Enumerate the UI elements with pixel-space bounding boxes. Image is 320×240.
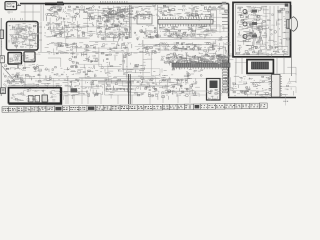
power board components <box>11 89 61 103</box>
CRT board wires <box>236 58 284 74</box>
terminal table cell 26 <box>200 104 208 109</box>
terminal table cell 15 <box>111 105 120 110</box>
terminal table cell 27 <box>208 104 216 109</box>
antenna connector J1 <box>5 2 17 10</box>
wire mesh left-low zone <box>36 53 40 56</box>
chroma transistor row <box>165 46 167 49</box>
wire h-rail 52 <box>38 52 160 54</box>
vertical yoke coil comb <box>98 80 134 82</box>
terminal table cell 6 <box>38 106 46 111</box>
terminal table cell 33 <box>260 103 268 108</box>
terminal table cell 29 <box>225 104 235 109</box>
terminal table cell 31 <box>242 103 250 108</box>
video detector components <box>51 21 54 24</box>
wire under J1 <box>7 11 13 14</box>
horizontal drive components <box>171 89 174 92</box>
jungle IC labels <box>170 60 174 61</box>
wire v143 <box>142 40 144 80</box>
audio right components <box>279 28 281 30</box>
wire mesh deflection zone <box>207 85 211 92</box>
connector CN201 pins <box>222 14 228 16</box>
audio board outer box <box>233 2 290 56</box>
AGC components <box>123 8 126 11</box>
audio board inner line <box>235 5 288 55</box>
terminal table cell 28 <box>215 104 225 109</box>
terminal table cell 25 <box>194 104 201 109</box>
noise canceller components <box>64 69 66 71</box>
terminal table cell 1 <box>2 107 9 112</box>
CRT socket board box <box>247 60 273 74</box>
IC601 vertical bar <box>272 75 281 98</box>
terminal table cell 12 <box>87 106 95 111</box>
luma delay components <box>160 55 163 58</box>
wire left edge bus <box>0 18 2 96</box>
wire v82 <box>81 78 83 104</box>
wire tuner feeds <box>21 4 44 21</box>
terminal table cell 16 <box>120 105 129 110</box>
AFC components <box>111 78 113 80</box>
speaker <box>289 17 298 32</box>
audio output wires <box>266 6 286 52</box>
wire x157 vertical <box>157 5 159 38</box>
AFT module components <box>25 54 35 61</box>
transformer T901 <box>42 95 47 102</box>
terminal table cell 2 <box>9 107 17 112</box>
terminal table cell 19 <box>144 105 153 110</box>
terminal table cell 8 <box>54 106 62 111</box>
AC power inlet <box>1 88 6 94</box>
filter capacitor C902 <box>35 96 40 102</box>
filter capacitor C901 <box>29 96 34 102</box>
wire mesh right-low zone <box>287 67 296 75</box>
lower-left components <box>9 83 12 85</box>
wire mesh video zone <box>143 40 170 44</box>
IC501 jungle IC <box>172 63 230 67</box>
terminal table cell 14 <box>103 105 111 110</box>
audio stage 3 components <box>259 37 261 39</box>
AGC label text <box>100 1 101 4</box>
CRT socket connector <box>252 62 269 69</box>
audio driver Q2 knot <box>243 22 247 26</box>
IF secondary components <box>175 30 178 33</box>
wire v68 <box>67 78 69 104</box>
sync countdown components <box>187 73 189 75</box>
sync separator box <box>137 15 152 25</box>
audio driver Q1 knot <box>243 10 247 14</box>
damper diode row <box>105 88 134 90</box>
IF module components <box>9 54 24 64</box>
wire mesh RF zone <box>65 21 90 38</box>
terminal table cell 13 <box>95 105 103 110</box>
wire H-out bus <box>129 74 131 104</box>
terminal table cell 5 <box>31 106 39 111</box>
IC201 IF amplifier <box>158 20 213 25</box>
wire h-rail 78 <box>14 78 160 80</box>
tuner label text <box>10 18 11 21</box>
sync components <box>140 30 143 32</box>
wire above power board <box>8 85 62 87</box>
terminal table cell 10 <box>70 106 79 111</box>
page number text <box>284 100 285 103</box>
wire v127 <box>126 44 128 80</box>
terminal table cell 32 <box>250 103 260 108</box>
standby circuit components <box>45 84 48 86</box>
terminal table cell 17 <box>129 105 138 110</box>
terminal table cell 9 <box>63 106 70 111</box>
audio stage 1 components <box>257 16 259 18</box>
tuner side label <box>0 41 3 43</box>
terminal table cell 20 <box>153 105 163 110</box>
terminal table cell 24 <box>185 104 194 109</box>
chroma section components <box>123 41 126 44</box>
burst gate components <box>136 64 139 66</box>
RF section components <box>140 16 143 18</box>
terminal table cell 7 <box>46 106 54 111</box>
wire vertical shield <box>130 5 132 38</box>
audio bottom components <box>259 50 262 52</box>
AV input jack <box>0 56 4 63</box>
terminal table cell 30 <box>235 103 242 108</box>
terminal table cell 3 <box>17 107 24 112</box>
rail side components <box>219 46 221 50</box>
wire top rail <box>20 3 229 5</box>
chopper transistor Q801 <box>71 88 78 92</box>
wire speaker feed <box>291 5 293 76</box>
terminal table cell 22 <box>170 104 178 109</box>
tuner internal components <box>9 24 40 50</box>
wire main board right edge <box>228 4 230 97</box>
wire mesh IF zone <box>196 29 211 38</box>
terminal table cell 18 <box>137 105 144 110</box>
wire J1 to rail <box>17 4 21 6</box>
regulator block IC801 <box>207 79 221 101</box>
wire feeds to PSU table <box>66 95 190 104</box>
wire diagonal jumper <box>2 66 14 80</box>
tuner module box <box>7 22 39 51</box>
terminal table cell 4 <box>24 107 31 112</box>
audio board corner label <box>285 4 289 7</box>
pedestal clamp components <box>88 59 90 62</box>
far right components <box>289 78 291 80</box>
power supply board box <box>9 88 62 104</box>
right lower components <box>245 90 248 92</box>
flyback transformer components <box>222 83 225 86</box>
wire video bus rails <box>152 38 228 40</box>
terminal table cell 21 <box>163 104 170 109</box>
wire mesh chroma zone <box>225 44 230 46</box>
antenna terminal block <box>0 30 4 38</box>
IF module box <box>8 53 22 65</box>
rail corner label <box>222 2 226 5</box>
terminal table cell 23 <box>177 104 184 109</box>
IC201 label row <box>192 15 194 18</box>
connector CN501 pins <box>223 60 228 62</box>
AFT module box <box>24 52 35 62</box>
wire rail heavy segment <box>45 3 64 6</box>
wire tuner output <box>38 22 42 53</box>
vertical output components <box>87 86 90 89</box>
video amp components <box>93 43 98 45</box>
wire bottom-right rail <box>228 97 296 99</box>
top text row <box>190 10 193 13</box>
audio wire mesh <box>242 23 263 30</box>
terminal table cell 11 <box>79 106 87 111</box>
audio driver Q3 knot <box>243 35 247 39</box>
audio stage 2 components <box>256 19 259 20</box>
